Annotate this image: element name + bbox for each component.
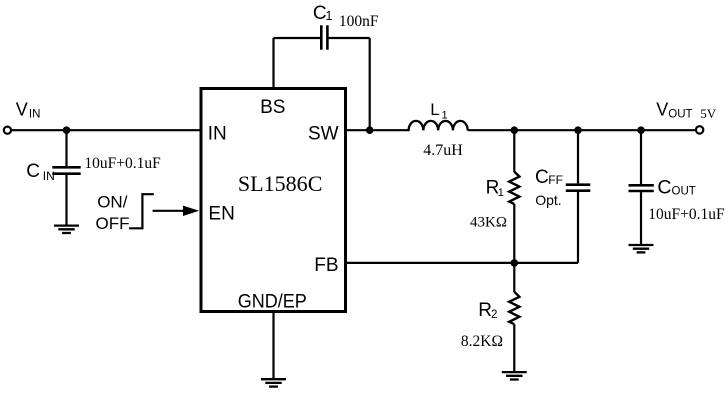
svg-text:V: V bbox=[16, 100, 28, 120]
wire input to IN pin bbox=[11, 129, 199, 131]
wire R2 to ground bbox=[513, 324, 515, 371]
capacitor COUT bbox=[629, 185, 654, 191]
wire GND/EP pin down bbox=[272, 312, 274, 379]
svg-text:OFF: OFF bbox=[96, 214, 130, 233]
wire FB line bbox=[347, 262, 578, 264]
wire COUT top down bbox=[640, 130, 642, 184]
wire R1 to FB node bbox=[513, 204, 515, 263]
wire arrow to EN bbox=[153, 210, 186, 212]
node CFF top bbox=[574, 126, 582, 134]
svg-text:FF: FF bbox=[548, 173, 563, 187]
svg-text:C: C bbox=[26, 161, 40, 182]
svg-text:1: 1 bbox=[326, 9, 333, 23]
svg-text:L: L bbox=[430, 100, 439, 119]
svg-text:100nF: 100nF bbox=[339, 13, 379, 30]
label CIN bbox=[26, 161, 55, 183]
svg-text:SW: SW bbox=[308, 123, 339, 144]
svg-text:43KΩ: 43KΩ bbox=[470, 214, 507, 230]
svg-text:BS: BS bbox=[260, 97, 285, 118]
resistor R2 bbox=[509, 292, 519, 324]
ground (CIN) bbox=[54, 226, 79, 233]
inductor L1 bbox=[409, 121, 468, 131]
node COUT top bbox=[637, 126, 645, 134]
wire SW pin to inductor bbox=[346, 129, 410, 131]
node FB junction bbox=[511, 259, 519, 267]
wire node to R1 bbox=[513, 130, 515, 172]
wire CFF top down bbox=[577, 130, 579, 183]
svg-text:EN: EN bbox=[208, 203, 234, 224]
ground (COUT) bbox=[629, 245, 654, 252]
svg-text:ON/: ON/ bbox=[97, 192, 128, 211]
wire FB node to R2 bbox=[513, 263, 515, 292]
node output of L1 bbox=[511, 126, 519, 134]
svg-text:SL1586C: SL1586C bbox=[238, 171, 323, 196]
svg-text:V: V bbox=[656, 99, 668, 119]
svg-text:1: 1 bbox=[498, 187, 504, 199]
label C1 bbox=[313, 3, 333, 24]
svg-text:IN: IN bbox=[43, 169, 55, 183]
label L1 bbox=[430, 100, 447, 122]
svg-text:R: R bbox=[478, 300, 492, 321]
svg-text:4.7uH: 4.7uH bbox=[423, 142, 463, 159]
wire C1 right bbox=[329, 37, 370, 39]
svg-text:OUT: OUT bbox=[672, 186, 696, 198]
wire COUT to ground bbox=[640, 192, 642, 244]
svg-text:C: C bbox=[657, 177, 671, 199]
ground (GND/EP) bbox=[261, 379, 286, 386]
svg-text:OUT: OUT bbox=[668, 109, 692, 121]
svg-text:GND/EP: GND/EP bbox=[238, 292, 307, 313]
label VIN bbox=[16, 100, 41, 121]
ground (R2) bbox=[502, 372, 527, 379]
svg-text:10uF+0.1uF: 10uF+0.1uF bbox=[84, 155, 161, 172]
capacitor CFF bbox=[566, 185, 591, 191]
wire inductor to output terminal bbox=[468, 129, 695, 131]
label VOUT bbox=[656, 99, 692, 120]
output terminal (open circle) bbox=[696, 126, 703, 133]
svg-text:C: C bbox=[535, 167, 549, 188]
svg-text:IN: IN bbox=[29, 108, 41, 120]
svg-text:8.2KΩ: 8.2KΩ bbox=[461, 333, 503, 350]
node SW/C1 junction bbox=[366, 126, 374, 134]
wire BS pin up bbox=[272, 38, 274, 88]
arrowhead into EN pin bbox=[183, 206, 199, 216]
capacitor CIN bbox=[52, 167, 80, 173]
label ON/OFF bbox=[96, 192, 130, 233]
wire BS to C1 left bbox=[274, 37, 321, 39]
input terminal (open circle) bbox=[4, 127, 11, 134]
svg-text:5V: 5V bbox=[700, 106, 717, 121]
svg-text:1: 1 bbox=[442, 109, 448, 121]
wire CFF bottom to FB line bbox=[577, 192, 579, 263]
node VIN junction bbox=[63, 126, 71, 134]
label R1 bbox=[486, 177, 504, 199]
wire CIN to ground bbox=[65, 175, 67, 225]
label COUT bbox=[657, 177, 695, 199]
capacitor C1 bbox=[321, 25, 327, 49]
svg-text:2: 2 bbox=[491, 309, 497, 321]
label CFF bbox=[535, 167, 563, 188]
on/off step waveform symbol bbox=[129, 194, 154, 228]
op-amp U1 SL1586C (IC body) bbox=[201, 89, 346, 312]
svg-text:IN: IN bbox=[208, 123, 227, 144]
svg-text:Opt.: Opt. bbox=[535, 192, 561, 208]
resistor R1 bbox=[509, 172, 519, 204]
svg-text:FB: FB bbox=[314, 255, 338, 276]
wire C1 down to SW node bbox=[369, 38, 371, 130]
label R2 bbox=[478, 300, 497, 321]
wire VIN node down to CIN bbox=[65, 130, 67, 166]
svg-text:10uF+0.1uF: 10uF+0.1uF bbox=[648, 206, 725, 223]
